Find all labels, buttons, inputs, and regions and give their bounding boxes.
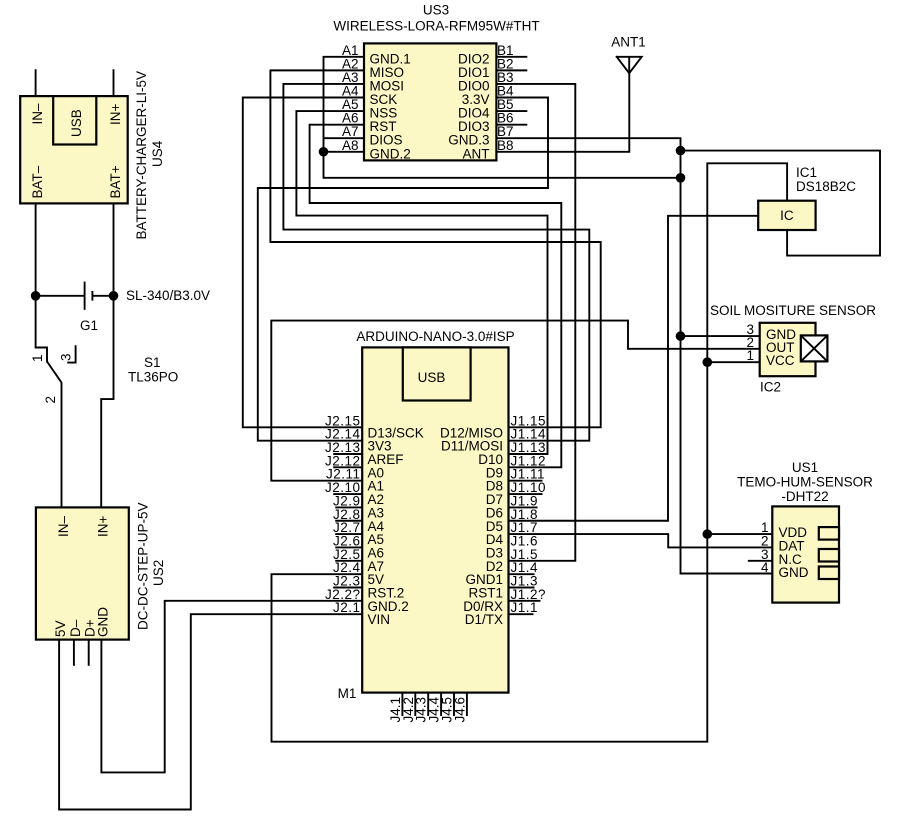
svg-text:3: 3 (59, 353, 74, 361)
svg-text:BAT–: BAT– (30, 165, 45, 198)
svg-text:M1: M1 (338, 686, 357, 701)
svg-text:US4: US4 (150, 140, 165, 167)
svg-text:DC-DC-STEP-UP-5V: DC-DC-STEP-UP-5V (136, 502, 151, 630)
svg-text:1: 1 (30, 354, 45, 362)
svg-text:IC2: IC2 (760, 380, 781, 395)
svg-text:J2.1: J2.1 (333, 600, 361, 615)
svg-text:VCC: VCC (766, 353, 795, 368)
svg-text:J4.6: J4.6 (452, 697, 467, 723)
svg-text:US3: US3 (423, 3, 449, 18)
svg-text:ANT1: ANT1 (611, 35, 646, 50)
svg-text:IC1: IC1 (796, 165, 817, 180)
svg-text:BAT+: BAT+ (108, 165, 123, 198)
svg-text:GND: GND (779, 565, 809, 580)
svg-text:USB: USB (418, 370, 446, 385)
svg-text:J1.1: J1.1 (511, 600, 539, 615)
svg-text:IN+: IN+ (108, 104, 123, 126)
svg-text:DS18B2C: DS18B2C (796, 179, 856, 194)
svg-text:D–: D– (68, 619, 83, 637)
svg-text:ANT: ANT (463, 146, 490, 161)
svg-text:GND: GND (96, 607, 111, 637)
svg-text:US1: US1 (792, 460, 818, 475)
svg-text:TEMO-HUM-SENSOR: TEMO-HUM-SENSOR (737, 475, 873, 490)
svg-text:TL36PO: TL36PO (128, 370, 178, 385)
svg-text:IC: IC (780, 208, 794, 223)
svg-text:D1/TX: D1/TX (465, 612, 503, 627)
svg-text:G1: G1 (80, 318, 98, 333)
svg-text:1: 1 (746, 348, 754, 363)
svg-text:USB: USB (69, 109, 84, 137)
svg-text:2: 2 (43, 396, 58, 404)
svg-text:4: 4 (761, 560, 769, 575)
svg-text:5V: 5V (53, 620, 68, 637)
svg-text:WIRELESS-LORA-RFM95W#THT: WIRELESS-LORA-RFM95W#THT (333, 18, 539, 33)
svg-text:VIN: VIN (368, 612, 391, 627)
svg-text:IN–: IN– (30, 103, 45, 125)
svg-text:IN+: IN+ (96, 516, 111, 538)
svg-text:BATTERY-CHARGER-LI-5V: BATTERY-CHARGER-LI-5V (134, 71, 149, 240)
svg-text:GND.2: GND.2 (370, 146, 411, 161)
svg-text:-DHT22: -DHT22 (781, 489, 828, 504)
svg-text:US2: US2 (151, 560, 166, 586)
svg-text:S1: S1 (144, 355, 161, 370)
svg-text:SOIL MOSITURE SENSOR: SOIL MOSITURE SENSOR (710, 303, 876, 318)
svg-text:ARDUINO-NANO-3.0#ISP: ARDUINO-NANO-3.0#ISP (356, 329, 514, 344)
svg-text:A8: A8 (342, 138, 359, 153)
svg-text:SL-340/B3.0V: SL-340/B3.0V (126, 288, 210, 303)
svg-text:B8: B8 (497, 138, 514, 153)
svg-text:IN–: IN– (56, 516, 71, 538)
